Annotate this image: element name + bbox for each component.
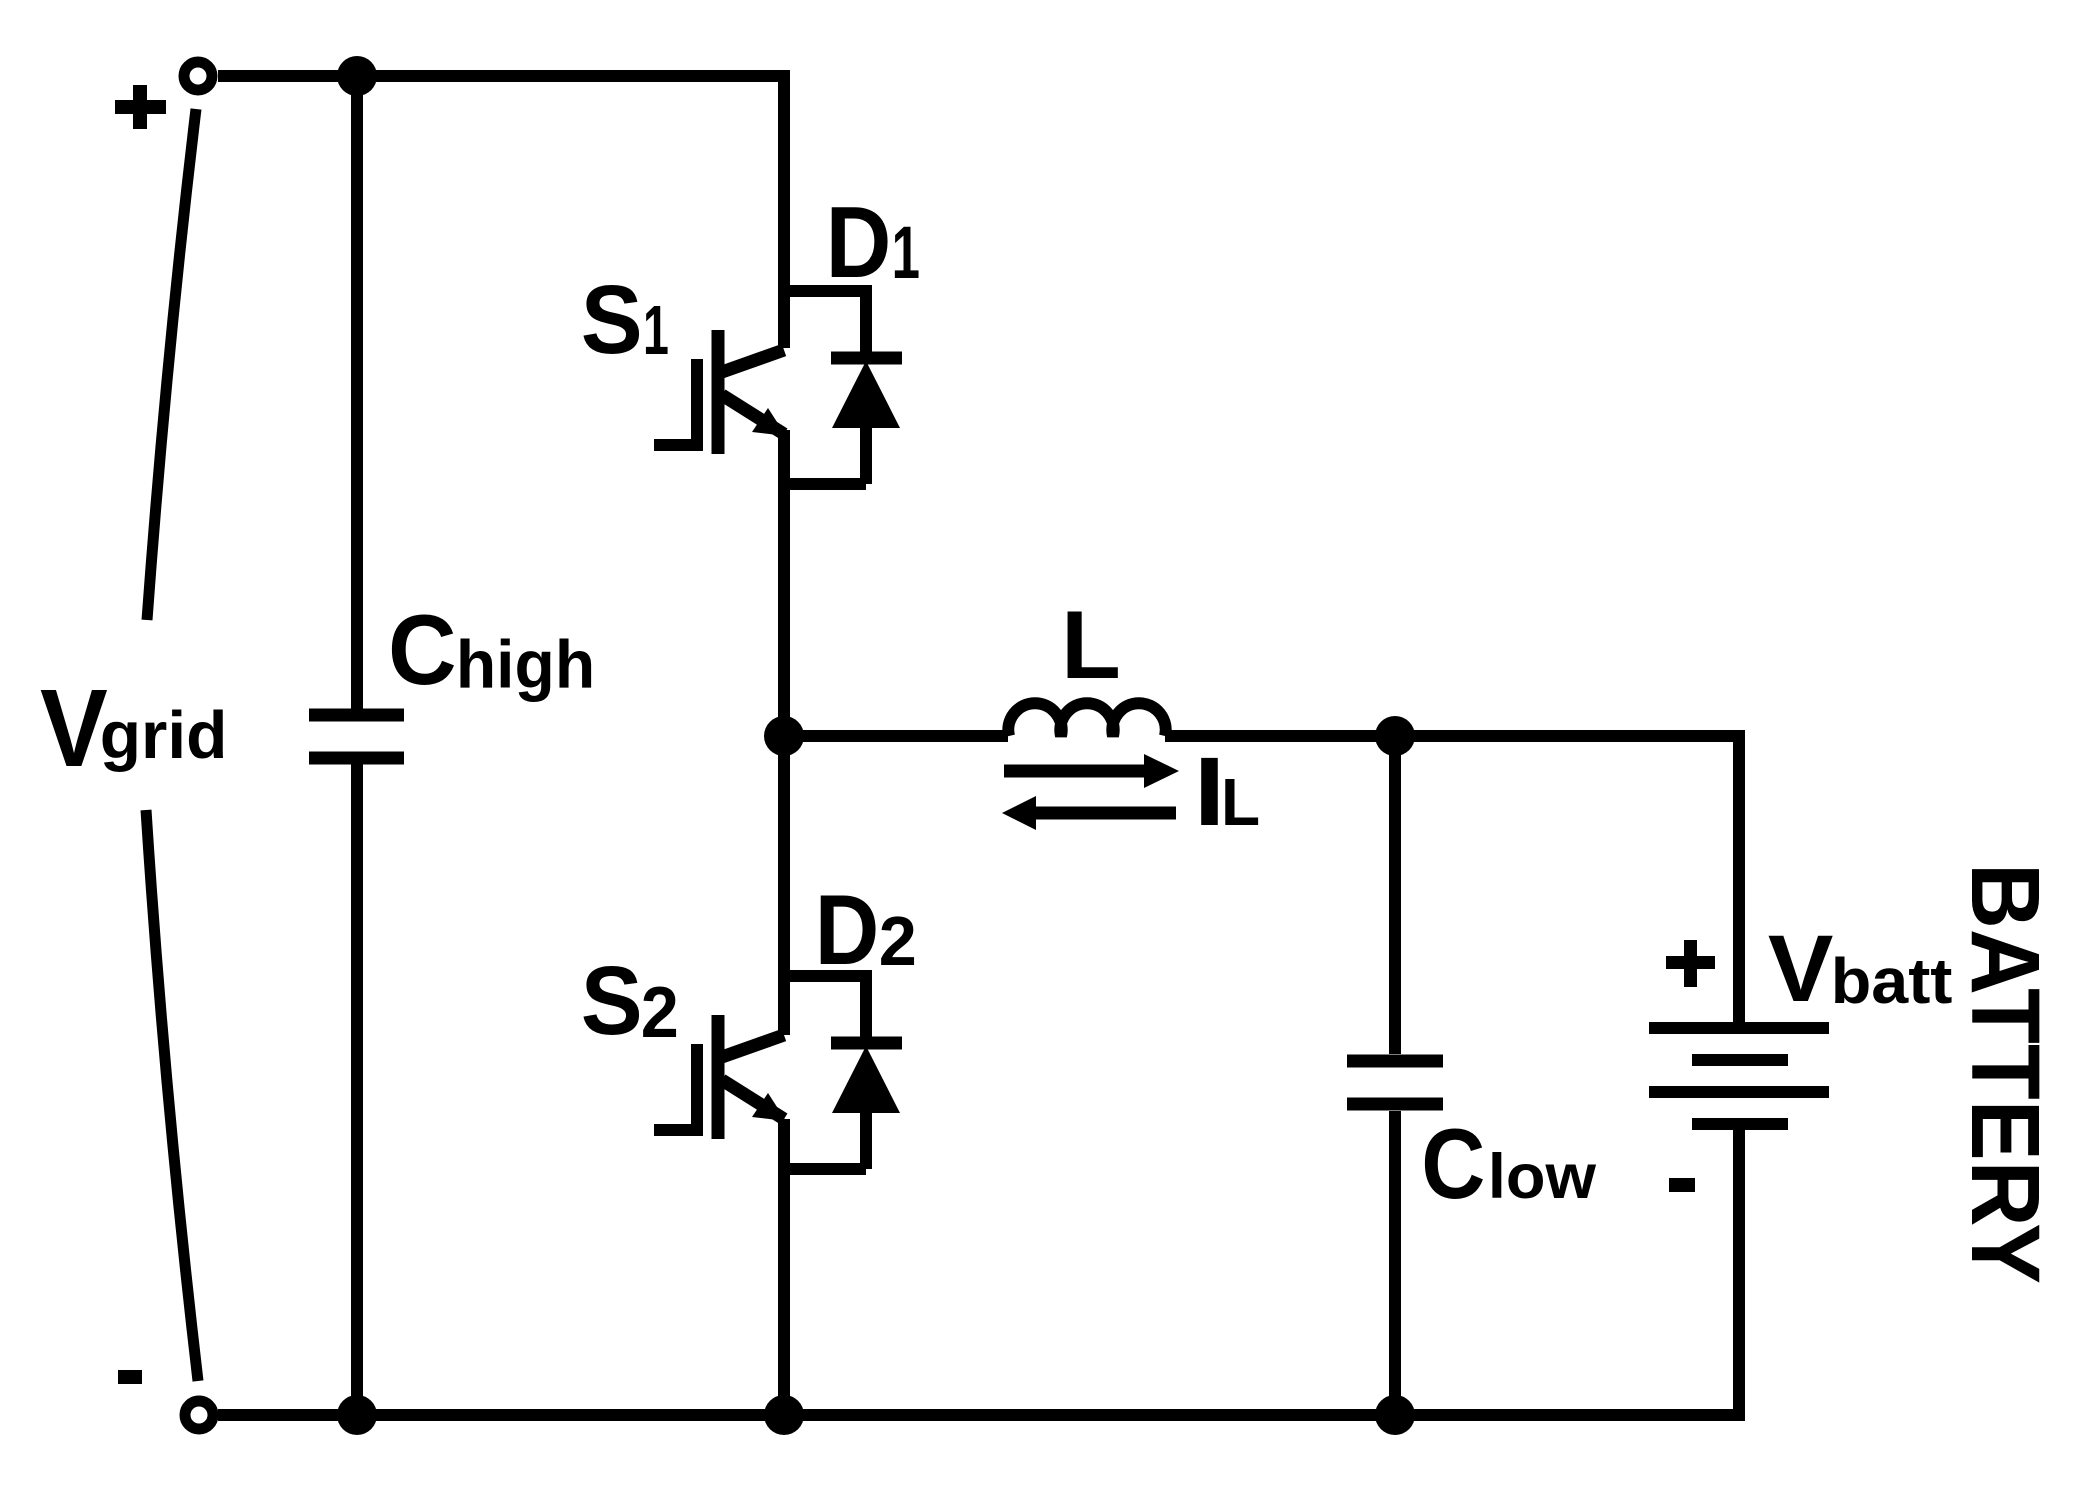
svg-text:S: S	[581, 947, 643, 1056]
svg-text:batt: batt	[1831, 945, 1953, 1017]
svg-text:C: C	[388, 594, 457, 705]
svg-text:BATTERY: BATTERY	[1950, 863, 2060, 1284]
svg-text:2: 2	[879, 903, 917, 981]
svg-text:1: 1	[892, 212, 920, 295]
svg-text:C: C	[1421, 1108, 1485, 1219]
svg-text:low: low	[1488, 1141, 1596, 1212]
svg-text:D: D	[815, 875, 880, 986]
svg-text:V: V	[1768, 916, 1834, 1021]
svg-text:D: D	[826, 187, 892, 299]
svg-text:2: 2	[641, 971, 679, 1052]
svg-text:high: high	[456, 628, 595, 703]
svg-text:V: V	[40, 667, 108, 790]
svg-text:L: L	[1221, 765, 1260, 840]
svg-text:L: L	[1061, 591, 1121, 699]
svg-text:1: 1	[643, 291, 669, 370]
svg-text:grid: grid	[100, 699, 228, 773]
svg-text:S: S	[581, 266, 643, 375]
